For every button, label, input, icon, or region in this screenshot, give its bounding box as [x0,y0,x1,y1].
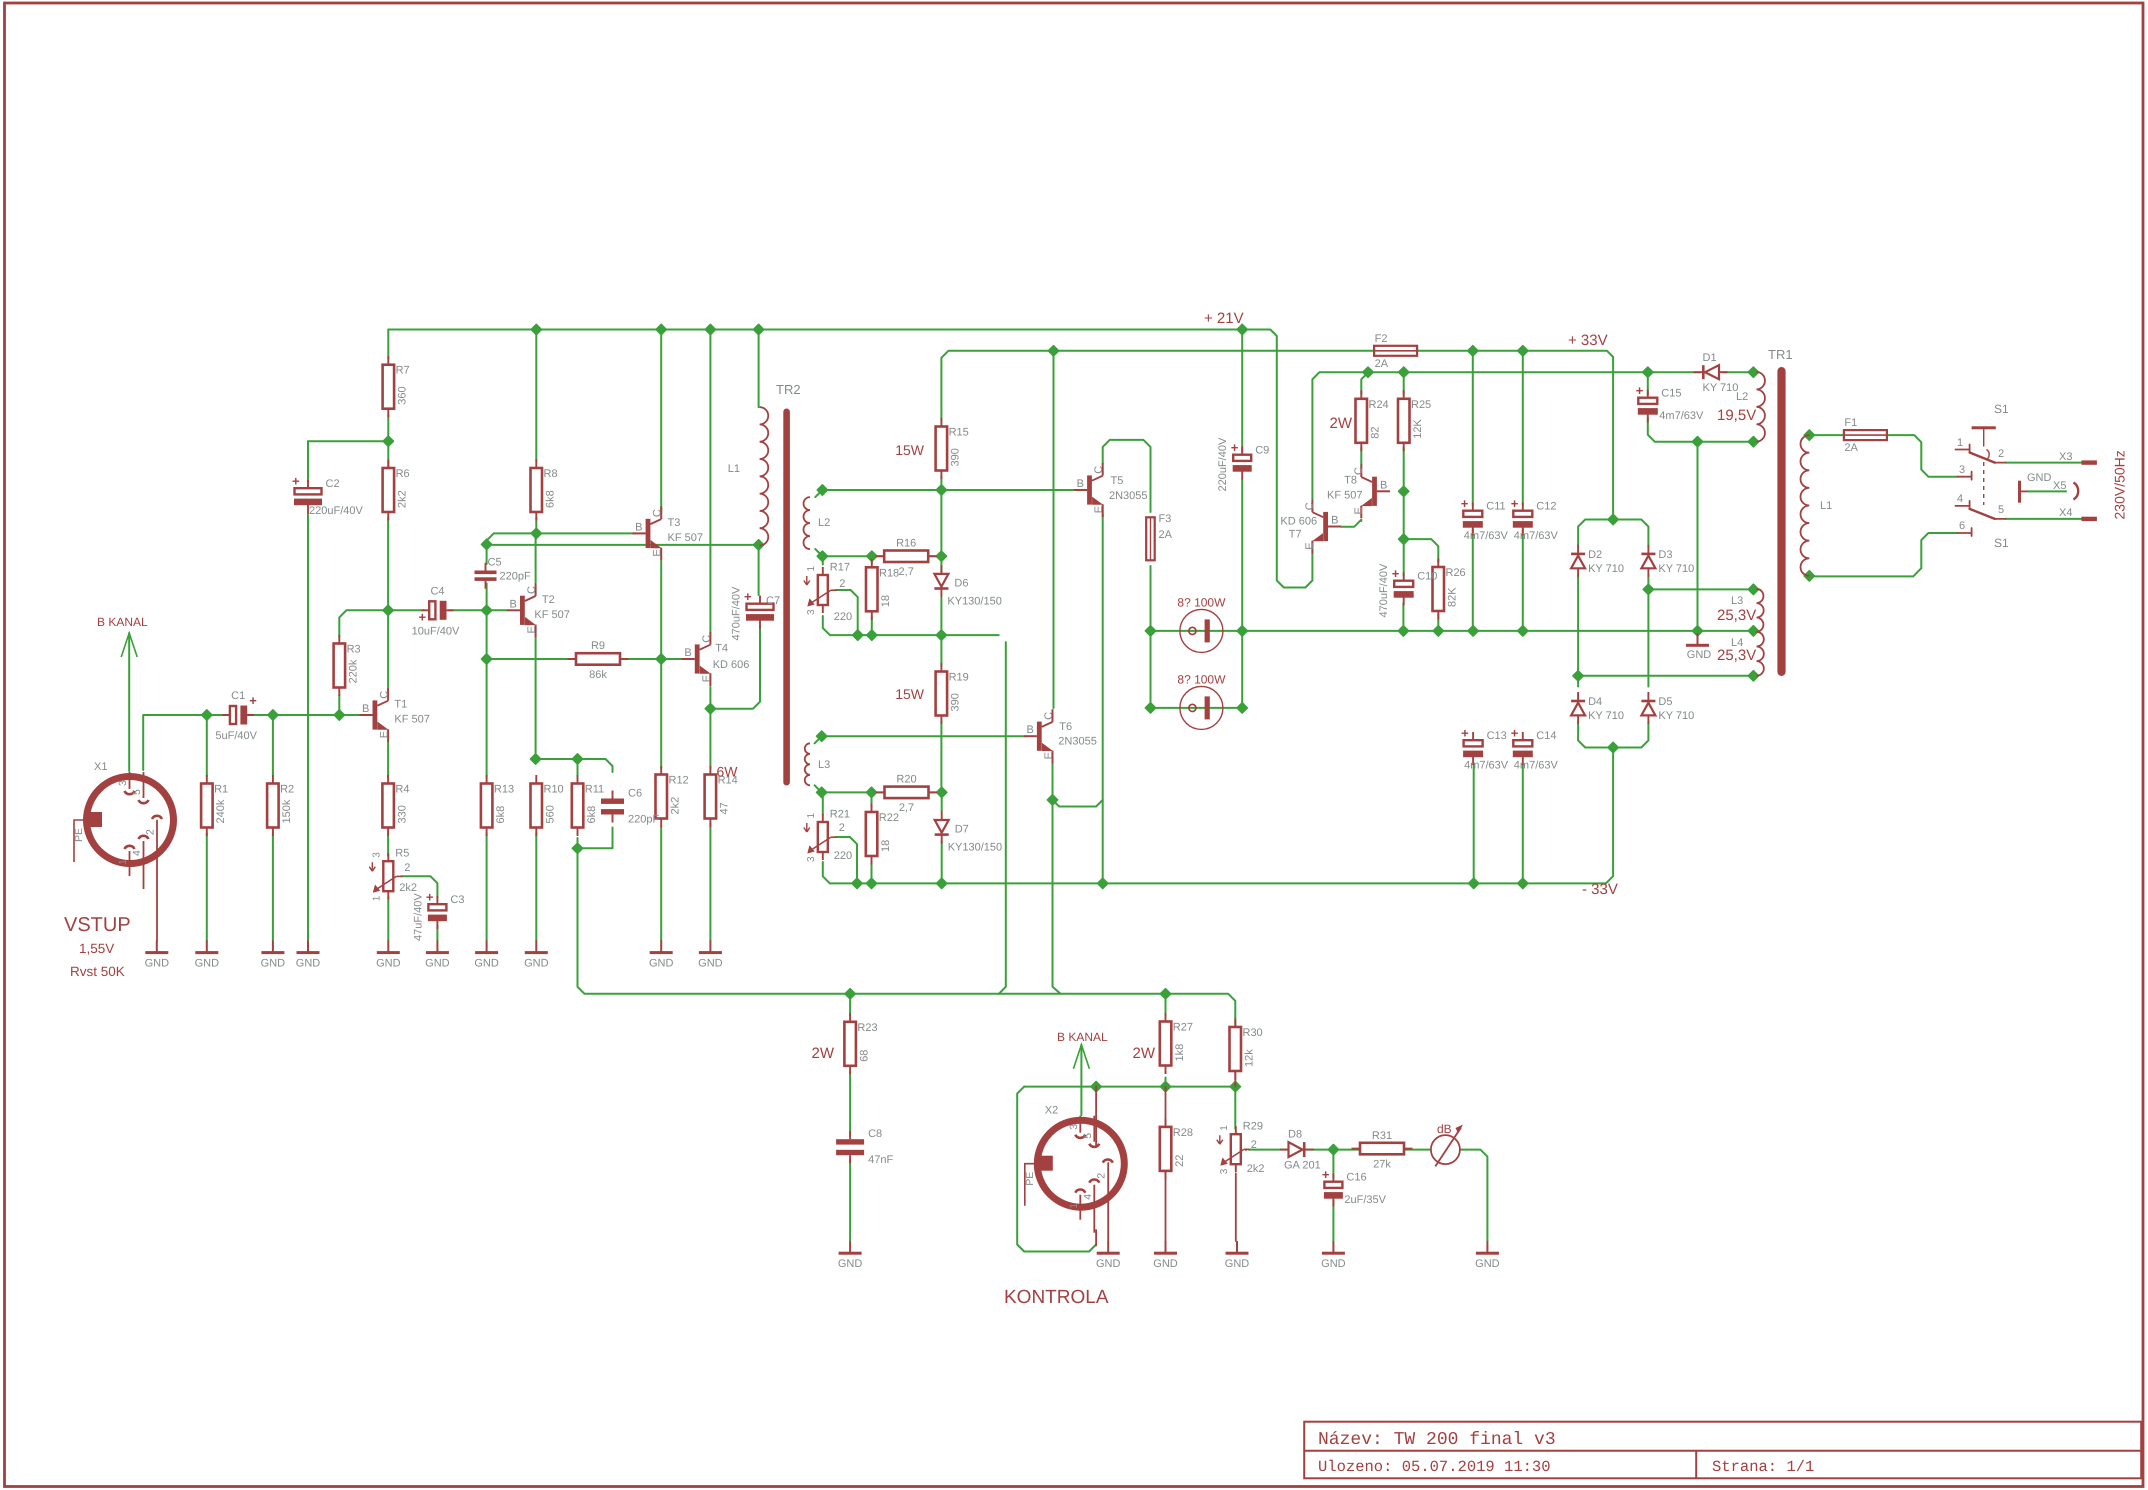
svg-text:C: C [379,691,391,699]
junction node at 1103,883 [1098,878,1108,888]
wire T8 base node to R26 / C10 [1404,539,1439,562]
wire R14 bottom to GND [709,823,711,941]
svg-text:2: 2 [1998,448,2004,460]
junction node at 1753,676 [1748,671,1758,681]
svg-text:GND: GND [474,958,499,970]
wire X1 pin2 to GND [156,821,158,942]
svg-text:2k2: 2k2 [1247,1163,1265,1175]
resistor R18 [871,559,873,568]
svg-text:KF 507: KF 507 [668,532,703,544]
resistor R2 [272,775,274,784]
svg-text:C11: C11 [1486,501,1505,513]
wire R13 bottom to GND [486,833,488,941]
svg-text:+: + [1461,726,1469,741]
resistor R7 [387,356,389,365]
wire +33V main rail (F2 line) [941,351,1374,421]
svg-text:GND: GND [1225,1258,1250,1270]
svg-text:15W: 15W [895,442,925,458]
svg-text:560: 560 [545,805,557,823]
svg-text:2,7: 2,7 [899,566,914,578]
svg-text:R22: R22 [879,812,899,824]
svg-text:R9: R9 [591,640,605,652]
svg-text:X3: X3 [2059,451,2072,463]
svg-text:R13: R13 [494,784,514,796]
svg-text:220k: 220k [348,659,360,683]
junction node at 536,330 [531,324,541,334]
TR2 transformer core [783,409,790,786]
resistor R4 [387,775,389,784]
junction node at 661,659 [656,654,666,664]
TR1 inductor L3 25.3V [1757,589,1764,632]
connector pad X3 [2081,460,2097,464]
svg-text:150k: 150k [281,799,293,823]
svg-text:Strana: 1/1: Strana: 1/1 [1712,1458,1814,1476]
svg-text:C10: C10 [1417,571,1437,583]
svg-text:C: C [701,635,713,643]
wire C7 bottom to T4 emitter to R14 [710,627,760,709]
junction node at 1648,372 [1643,367,1653,377]
junction node at 661,330 [656,324,666,334]
svg-text:360: 360 [397,386,409,404]
resistor R27 2W [1165,1013,1167,1022]
junction node at 872,635 [867,630,877,640]
junction node at 1404,539 [1399,534,1409,544]
svg-text:C14: C14 [1536,730,1556,742]
svg-text:KONTROLA: KONTROLA [1004,1287,1109,1308]
ground at x=388.3 [387,941,389,953]
resistor R15 15W [940,418,942,427]
svg-text:C2: C2 [326,478,340,490]
svg-text:F3: F3 [1159,513,1172,525]
svg-text:Rvst 50K: Rvst 50K [70,964,125,979]
junction node at 1809,576 [1804,571,1814,581]
svg-text:KY 710: KY 710 [1658,710,1694,722]
svg-text:D6: D6 [954,577,968,589]
junction node at 273,715 [268,710,278,720]
svg-text:2A: 2A [1375,358,1389,370]
capacitor C9 [1241,447,1243,455]
svg-text:C: C [526,586,538,594]
svg-text:PE: PE [73,828,85,842]
diode D3 [1647,545,1649,577]
fuse F2 [1374,346,1417,356]
svg-text:L3: L3 [818,759,830,771]
junction node at 872,792 [866,787,876,797]
svg-text:KY 710: KY 710 [1588,563,1624,575]
junction node at 822,556 [817,551,827,561]
svg-text:KF 507: KF 507 [394,714,429,726]
transistor T8 mirrored [1372,477,1377,506]
svg-text:B: B [510,598,517,610]
svg-text:+: + [1636,383,1644,398]
capacitor C11 [1472,503,1474,511]
resistor R24 2W [1360,390,1362,399]
svg-text:6W: 6W [717,764,739,780]
diode D6 [940,565,942,597]
svg-text:T8: T8 [1344,474,1357,486]
junction node at 941,635 [936,630,946,640]
svg-text:4: 4 [1082,1194,1094,1200]
wire R5 pin1 to GND [387,897,389,941]
ground symbol X5 side [2018,481,2021,503]
svg-text:T1: T1 [394,699,407,711]
junction node at 578,759 [572,754,582,764]
svg-text:2: 2 [839,822,845,834]
svg-text:10uF/40V: 10uF/40V [412,625,460,637]
capacitor C7 [759,596,761,604]
capacitor C13 [1472,732,1474,740]
wire R28 bottom lead [1165,1171,1167,1241]
TR1 center tap ground [1697,633,1699,645]
svg-text:X1: X1 [94,761,107,773]
wire R8 / T2 collector / T3 base line [487,533,634,544]
junction node at 207,715 [202,710,212,720]
svg-text:GND: GND [195,958,220,970]
diode D2 [1577,545,1579,577]
svg-text:R5: R5 [395,848,409,860]
junction node at 1403,631 [1398,626,1408,636]
svg-text:B KANAL: B KANAL [1057,1030,1108,1044]
junction node at 578,848 [572,843,582,853]
transistor T2 [520,596,525,625]
wire R28 top lead [1165,1087,1167,1127]
junction node at 941,490 [936,485,946,495]
svg-text:5uF/40V: 5uF/40V [215,730,257,742]
junction node at 1242,708 [1237,703,1247,713]
svg-text:E: E [1304,542,1316,549]
junction node at 1052,800 [1047,795,1057,805]
resistor R26 [1437,559,1439,568]
svg-text:D8: D8 [1288,1129,1302,1141]
wire -33V rail [830,748,1613,884]
junction node at 1648,589 [1643,584,1653,594]
svg-text:R12: R12 [669,775,689,787]
wire +21V rail [388,330,1312,588]
svg-text:47nF: 47nF [868,1154,893,1166]
svg-text:220uF/40V: 220uF/40V [1217,437,1229,491]
junction node at 1809,435 [1804,430,1814,440]
ground at x=437.4 [436,941,438,953]
svg-text:C13: C13 [1487,730,1507,742]
svg-text:3: 3 [1959,464,1965,476]
wire T2 emitter / R10 / R11 / C6 line [535,637,537,759]
svg-text:2N3055: 2N3055 [1058,736,1097,748]
wire R10 bottom to GND [535,833,537,941]
svg-text:R10: R10 [544,784,564,796]
wire R23 to C8 to GND [849,1072,851,1134]
svg-text:2uF/35V: 2uF/35V [1344,1194,1386,1206]
capacitor C2 [307,480,309,488]
junction node at 710,330 [705,324,715,334]
svg-text:S1: S1 [1994,536,2009,550]
svg-text:R31: R31 [1372,1130,1392,1142]
svg-text:R29: R29 [1243,1121,1263,1133]
svg-text:3: 3 [806,856,817,862]
svg-text:+: + [744,589,752,604]
junction node at 822,736 [817,731,827,741]
svg-text:2: 2 [839,578,845,590]
svg-text:220pF: 220pF [628,814,659,826]
wire C3 bottom to GND [436,926,438,942]
wire T5/T6 emitter link [1053,759,1103,807]
junction node at 536,759 [530,754,540,764]
wire bridge mid node D2-D4 to TR1 L4 [1577,576,1579,687]
ground C8 [849,1241,851,1253]
svg-text:2A: 2A [1844,442,1858,454]
svg-text:GND: GND [2027,472,2052,484]
junction node at 1096,1087 [1091,1081,1101,1091]
connector X2 DIN [1037,1120,1124,1207]
svg-text:C7: C7 [766,595,780,607]
svg-text:KY 710: KY 710 [1588,710,1624,722]
resistor R14 6W [709,766,711,775]
ground at x=308.0 [307,941,309,953]
svg-text:R17: R17 [830,562,850,574]
junction node at 1404,491 [1399,486,1409,496]
svg-text:86k: 86k [589,669,607,681]
wire R29 bottom lead [1235,1174,1237,1242]
svg-text:GND: GND [1153,1258,1178,1270]
junction node at 1698,442 [1692,437,1702,447]
ground at x=156.8 [156,941,158,953]
svg-text:Ulozeno: 05.07.2019 11:30: Ulozeno: 05.07.2019 11:30 [1318,1458,1551,1476]
svg-text:220: 220 [834,850,852,862]
svg-text:470uF/40V: 470uF/40V [1378,563,1390,617]
svg-text:4m7/63V: 4m7/63V [1659,410,1704,422]
svg-text:E: E [1043,752,1055,759]
wire TR2 L2 top / T5 base line [815,490,1075,497]
svg-text:GND: GND [145,958,170,970]
svg-text:2: 2 [1251,1139,1257,1151]
svg-text:GND: GND [425,958,450,970]
svg-text:T7: T7 [1289,529,1302,541]
svg-text:GND: GND [1321,1258,1346,1270]
ground at x=206.8 [206,941,208,953]
junction node at 487,544 [481,539,491,549]
svg-text:KF 507: KF 507 [1327,489,1362,501]
svg-text:B: B [1077,478,1084,490]
svg-text:GND: GND [1475,1258,1500,1270]
svg-text:R16: R16 [896,538,916,550]
svg-text:X2: X2 [1045,1105,1058,1117]
svg-text:+: + [1231,440,1239,455]
svg-text:E: E [1353,507,1365,514]
svg-text:220pF: 220pF [500,571,531,583]
svg-text:R26: R26 [1446,567,1466,579]
wire R5 wiper to C3 [401,876,437,898]
junction node at 1438,631 [1433,626,1443,636]
junction node at 822,792 [817,787,827,797]
svg-text:+: + [1392,566,1400,581]
ground C16 [1332,1241,1334,1253]
svg-text:5: 5 [131,789,143,795]
junction node at 822,490 [817,485,827,495]
junction node at 1368,372 [1363,367,1373,377]
svg-text:+: + [426,890,434,905]
junction node at 1613,520 [1608,514,1618,524]
svg-text:GND: GND [1687,649,1712,661]
svg-text:GA 201: GA 201 [1284,1160,1321,1172]
svg-text:X5: X5 [2053,480,2066,492]
svg-text:2: 2 [1095,1173,1107,1179]
resistor R13 [486,775,488,784]
svg-text:C12: C12 [1536,501,1556,513]
svg-text:T2: T2 [542,594,555,606]
wire T5 collector to F3 [1103,440,1151,512]
capacitor C16 [1332,1174,1334,1182]
junction node at 1473,631 [1468,626,1478,636]
junction node at 1235,1087 [1230,1081,1240,1091]
wire R25 bottom to T8 base node [1403,448,1405,540]
meter dB [1431,1135,1460,1164]
junction node at 1166,994 [1160,989,1170,999]
svg-text:B: B [635,521,642,533]
svg-text:PE: PE [1024,1172,1036,1186]
svg-text:C15: C15 [1661,388,1681,400]
wire center speaker rail [1151,630,1754,632]
svg-text:D3: D3 [1658,549,1672,561]
svg-text:4: 4 [1957,493,1963,505]
svg-text:L1: L1 [1820,500,1832,512]
wire output node line (R23/R27/R30 feed) [578,838,1236,1029]
wire KONTROLA meter line and X2 box [1024,1086,1235,1088]
ground at x=486.6 [486,941,488,953]
svg-text:18: 18 [880,595,892,607]
svg-text:GND: GND [1096,1258,1121,1270]
TR1 inductor L4 25.3V [1757,632,1764,676]
resistor R29 trimmer [1235,1126,1237,1134]
svg-text:+ 21V: + 21V [1204,310,1244,327]
svg-text:3: 3 [1219,1168,1230,1174]
svg-text:4: 4 [131,850,143,856]
svg-text:TR1: TR1 [1768,347,1793,362]
svg-text:GND: GND [524,958,549,970]
wire TR2 L3 bottom / R20 / R22 / R21 line [815,785,885,792]
junction node at 1474,883 [1469,878,1479,888]
connector pad X4 [2081,517,2097,521]
svg-text:3: 3 [371,852,382,858]
transistor T4 [695,644,700,673]
wire TR2 L3 top / T6 base line [815,736,1025,743]
svg-text:390: 390 [950,448,962,466]
svg-text:1: 1 [1219,1125,1230,1131]
capacitor C6 [612,791,614,799]
svg-text:L2: L2 [1736,391,1748,403]
svg-text:330: 330 [396,805,408,823]
wire R2 bottom to GND [272,833,274,941]
svg-text:GND: GND [838,1258,863,1270]
svg-text:GND: GND [649,958,674,970]
svg-text:R21: R21 [830,809,850,821]
svg-text:1: 1 [371,895,382,901]
capacitor C1 [222,714,230,716]
svg-text:T5: T5 [1111,475,1124,487]
svg-text:+: + [419,609,427,624]
svg-text:230V/50Hz: 230V/50Hz [2112,450,2128,519]
diode D1 [1694,371,1728,373]
svg-text:C6: C6 [628,788,642,800]
junction node at 1698,631 [1692,626,1702,636]
svg-text:L1: L1 [728,463,740,475]
svg-text:2A: 2A [1159,529,1173,541]
resistor R6 [387,460,389,469]
svg-text:E: E [701,675,713,682]
resistor R30 [1234,1019,1236,1028]
svg-text:+: + [249,693,257,708]
svg-text:3: 3 [806,609,817,615]
svg-text:47uF/40V: 47uF/40V [412,893,424,941]
svg-text:KF 507: KF 507 [534,609,569,621]
svg-text:GND: GND [376,958,401,970]
svg-text:C1: C1 [231,690,245,702]
TR1 inductor L1 primary [1801,435,1810,576]
capacitor C8 [849,1131,851,1139]
junction node at 1242,330 [1237,324,1247,334]
svg-text:- 33V: - 33V [1582,881,1618,898]
wire input line X1 to T1 base [143,715,230,770]
junction node at 1166,1087 [1160,1081,1170,1091]
svg-text:C4: C4 [430,585,444,597]
svg-text:1: 1 [1068,1203,1080,1209]
svg-text:4m7/63V: 4m7/63V [1464,760,1509,772]
junction node at 1578,676 [1573,671,1583,681]
svg-text:1k8: 1k8 [1174,1044,1186,1062]
capacitor C10 [1403,573,1405,581]
junction node at 1242,631 [1237,626,1247,636]
svg-text:F1: F1 [1844,417,1857,429]
svg-text:390: 390 [950,693,962,711]
connector X5 jack [2074,483,2079,500]
svg-text:+: + [292,474,300,489]
svg-text:82: 82 [1370,427,1382,439]
TR2 inductor L2 [804,497,811,549]
svg-text:GND: GND [698,958,723,970]
wire speaker2 row [1151,707,1243,709]
svg-text:27k: 27k [1373,1158,1391,1170]
svg-text:R25: R25 [1411,399,1431,411]
svg-text:D7: D7 [955,824,969,836]
svg-text:2W: 2W [1133,1045,1156,1062]
junction node at 536,533 [531,528,541,538]
svg-text:6: 6 [1959,520,1965,532]
resistor R23 2W [849,1013,851,1022]
speaker SP2 [1180,686,1223,729]
svg-text:C16: C16 [1346,1172,1366,1184]
svg-text:47: 47 [719,802,731,814]
resistor R1 [206,775,208,784]
svg-text:C3: C3 [450,894,464,906]
svg-text:C8: C8 [868,1128,882,1140]
resistor R9 [568,658,577,660]
svg-text:6k8: 6k8 [495,806,507,824]
svg-text:C9: C9 [1255,445,1269,457]
junction node at 1150,631 [1145,626,1155,636]
diode D7 [941,812,943,844]
svg-text:4m7/63V: 4m7/63V [1514,760,1559,772]
resistor R19 15W [940,663,942,672]
svg-text:B: B [684,647,691,659]
transistor T1 [373,700,378,729]
junction node at 942,792 [937,787,947,797]
capacitor C4 [422,609,430,611]
wire F1 / switch / TR1 primary [1809,434,1843,436]
junction node at 1753,442 [1748,437,1758,447]
wire bridge mid node D3-D5 to TR1 L3 [1647,576,1649,687]
svg-text:GND: GND [261,958,286,970]
svg-text:R19: R19 [949,672,969,684]
svg-text:25,3V: 25,3V [1717,647,1756,664]
svg-text:C: C [1093,466,1105,474]
